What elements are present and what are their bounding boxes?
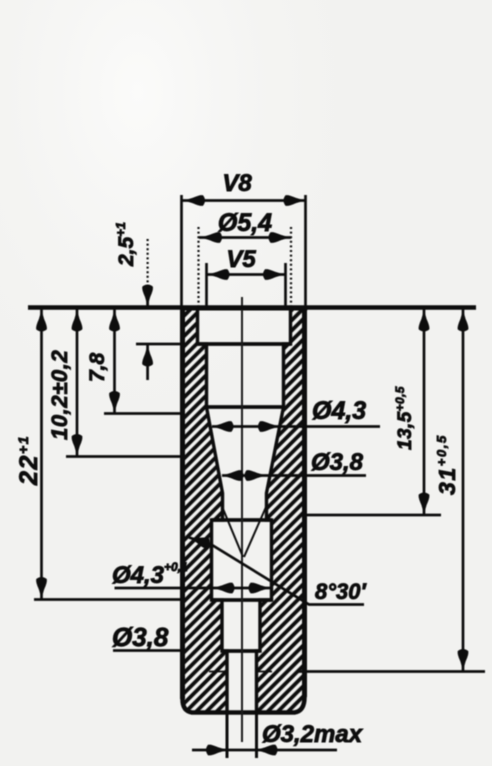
svg-text:Ø3,8: Ø3,8 <box>112 622 169 652</box>
svg-text:Ø3,8: Ø3,8 <box>311 449 364 476</box>
svg-text:10,2±0,2: 10,2±0,2 <box>47 350 72 440</box>
svg-text:Ø3,2max: Ø3,2max <box>262 721 364 748</box>
svg-text:7,8: 7,8 <box>86 352 109 382</box>
svg-text:V8: V8 <box>222 170 252 197</box>
svg-text:V5: V5 <box>226 246 256 273</box>
svg-text:Ø5,4: Ø5,4 <box>218 209 272 237</box>
svg-text:Ø4,3: Ø4,3 <box>312 397 366 425</box>
svg-text:8°30′: 8°30′ <box>315 579 368 604</box>
